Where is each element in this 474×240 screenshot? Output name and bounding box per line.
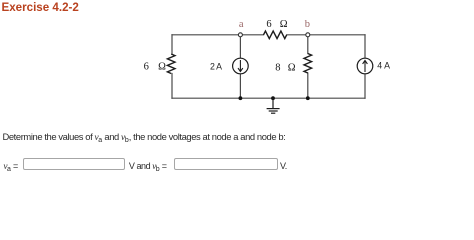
wire right edge lower (4A source to bottom corner)	[364, 73, 366, 98]
wire node b to 8ohm resistor	[307, 35, 309, 54]
svg-text:4: 4	[377, 61, 382, 71]
resistor 6 ohm horizontal between a and b	[264, 31, 287, 39]
input box for v_b	[174, 158, 278, 170]
wire right edge upper (corner to 4A source)	[364, 35, 366, 59]
wire top edge left segment (top-left corner to top resistor)	[172, 34, 264, 36]
current source 2A circle	[233, 58, 249, 74]
input box for v_a	[23, 158, 125, 170]
node b open circle	[306, 33, 310, 37]
current source 4A circle	[357, 58, 373, 74]
svg-text:a: a	[239, 19, 244, 30]
resistor 8 ohm vertical	[304, 54, 312, 74]
svg-text:Ω: Ω	[280, 19, 288, 30]
resistor 6 ohm left vertical	[167, 54, 175, 74]
ground symbol	[267, 98, 280, 113]
junction dot at 2A bottom	[239, 96, 243, 100]
wire 8ohm resistor to bottom	[307, 73, 309, 98]
svg-text:A: A	[384, 61, 390, 71]
svg-text:6: 6	[266, 19, 271, 30]
svg-text:2: 2	[210, 61, 215, 71]
junction dot at 8ohm bottom	[306, 96, 310, 100]
svg-text:6: 6	[144, 62, 149, 73]
wire 2A source to bottom	[239, 73, 241, 98]
svg-text:Ω: Ω	[288, 63, 296, 74]
answer row: V and v_b label	[129, 161, 167, 171]
wire left edge upper (corner to 6ohm resistor)	[171, 35, 173, 54]
answer row: v_a label	[4, 161, 18, 171]
current source 4A arrow (up)	[363, 61, 368, 73]
wire node a to 2A source	[239, 35, 241, 59]
svg-text:b: b	[305, 19, 310, 30]
question text	[3, 131, 286, 143]
wire bottom edge	[172, 97, 365, 99]
svg-text:Ω: Ω	[158, 62, 166, 73]
node a open circle	[238, 33, 242, 37]
wire top edge right segment (top resistor to top-right corner)	[287, 34, 365, 36]
current source 2A arrow (down)	[238, 60, 243, 72]
svg-text:8: 8	[275, 63, 280, 74]
junction dot at ground	[271, 96, 275, 100]
wire left edge lower (6ohm resistor to bottom corner)	[171, 74, 173, 99]
answer row: trailing V.	[280, 161, 287, 171]
svg-text:A: A	[216, 61, 222, 71]
title Exercise 4.2-2	[2, 1, 79, 14]
